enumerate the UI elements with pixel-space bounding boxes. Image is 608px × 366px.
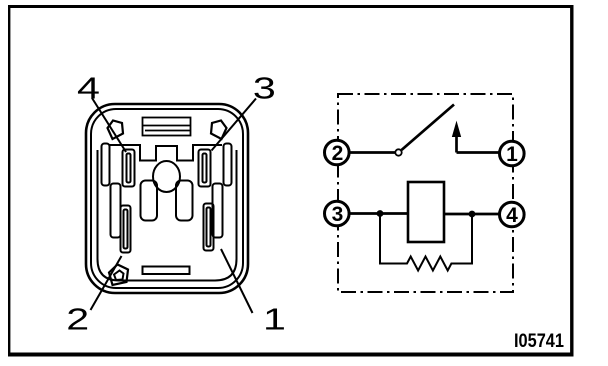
svg-text:1: 1 (263, 301, 286, 336)
figure number I05741 (514, 330, 564, 351)
wire: coil to terminal 4 (444, 213, 500, 216)
leader line pin 4 (92, 98, 126, 152)
pin 1 terminal slit (204, 204, 214, 251)
svg-text:3: 3 (332, 203, 344, 226)
pin 2 terminal slit (121, 206, 131, 253)
connector castellated inner contour (110, 145, 223, 161)
wire: arrow base to terminal 1 (457, 151, 501, 154)
connector left key bar upper (102, 144, 110, 186)
svg-text:1: 1 (506, 143, 518, 166)
terminal 1 (500, 141, 525, 166)
pin label 3 (253, 70, 276, 105)
pin label 2 (66, 301, 89, 336)
connector cavity wall (98, 150, 237, 281)
connector keyway top-right (211, 121, 227, 140)
pin 3 terminal slit (199, 150, 211, 187)
terminal 4 (500, 202, 525, 227)
pin 4 terminal slit (123, 150, 135, 187)
svg-text:4: 4 (506, 204, 518, 227)
svg-text:2: 2 (332, 142, 344, 165)
terminal 3 (325, 201, 350, 226)
wire: terminal 3 to coil (349, 212, 408, 215)
relay coil L (408, 182, 444, 242)
connector right key bar lower (213, 184, 223, 238)
switch pivot contact (395, 149, 401, 155)
pin label 4 (77, 70, 100, 105)
svg-text:4: 4 (77, 70, 100, 105)
switch blade SW (402, 105, 455, 151)
leader line pin 3 (212, 99, 257, 151)
resistor R parallel branch (380, 214, 472, 271)
wire: terminal 2 to switch pivot (349, 151, 395, 154)
connector bottom slot (143, 267, 190, 275)
connector keyway top-left (108, 121, 124, 140)
connector left ear cavity (141, 181, 158, 221)
connector right ear cavity (176, 181, 193, 221)
connector J1 outer housing (86, 104, 248, 293)
connector keyway bottom-left (109, 265, 128, 286)
svg-text:3: 3 (253, 70, 276, 105)
junction node right (469, 211, 476, 218)
connector left key bar lower (111, 184, 121, 238)
schematic dash-dot boundary (338, 94, 513, 292)
svg-text:I05741: I05741 (514, 330, 564, 351)
actuation arrow (453, 123, 461, 153)
svg-text:2: 2 (66, 301, 89, 336)
leader line pin 2 (91, 256, 122, 310)
terminal 2 (325, 140, 350, 165)
leader line pin 1 (221, 249, 253, 313)
connector top slot (143, 118, 191, 136)
pin label 1 (263, 301, 286, 336)
connector center post circle (153, 161, 180, 192)
junction node left (377, 210, 384, 217)
connector right key bar upper (224, 144, 232, 186)
